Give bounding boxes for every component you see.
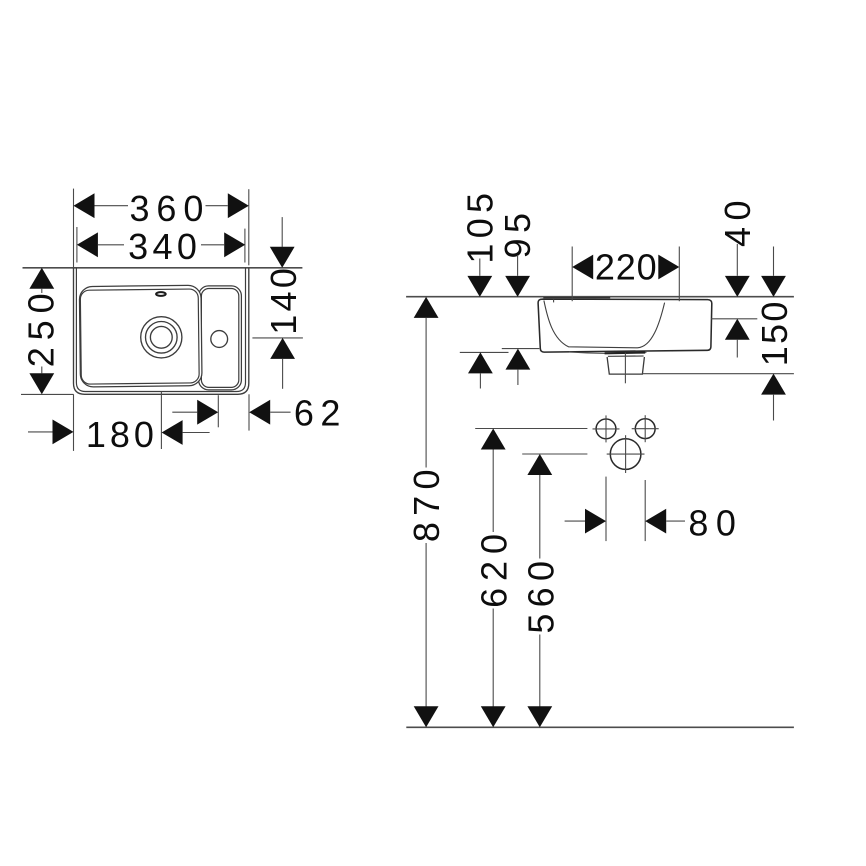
svg-text:360: 360 [130, 188, 211, 229]
svg-text:620: 620 [474, 527, 515, 608]
svg-text:150: 150 [754, 299, 795, 366]
svg-text:870: 870 [406, 463, 447, 542]
svg-text:560: 560 [520, 555, 561, 634]
svg-text:95: 95 [497, 207, 538, 258]
svg-text:340: 340 [128, 226, 201, 267]
svg-text:180: 180 [86, 414, 158, 455]
svg-text:250: 250 [21, 287, 62, 368]
svg-text:40: 40 [717, 194, 758, 247]
svg-text:80: 80 [688, 502, 743, 543]
svg-text:220: 220 [595, 247, 658, 288]
svg-text:140: 140 [263, 265, 304, 335]
svg-text:105: 105 [459, 188, 500, 264]
svg-text:62: 62 [294, 392, 347, 433]
